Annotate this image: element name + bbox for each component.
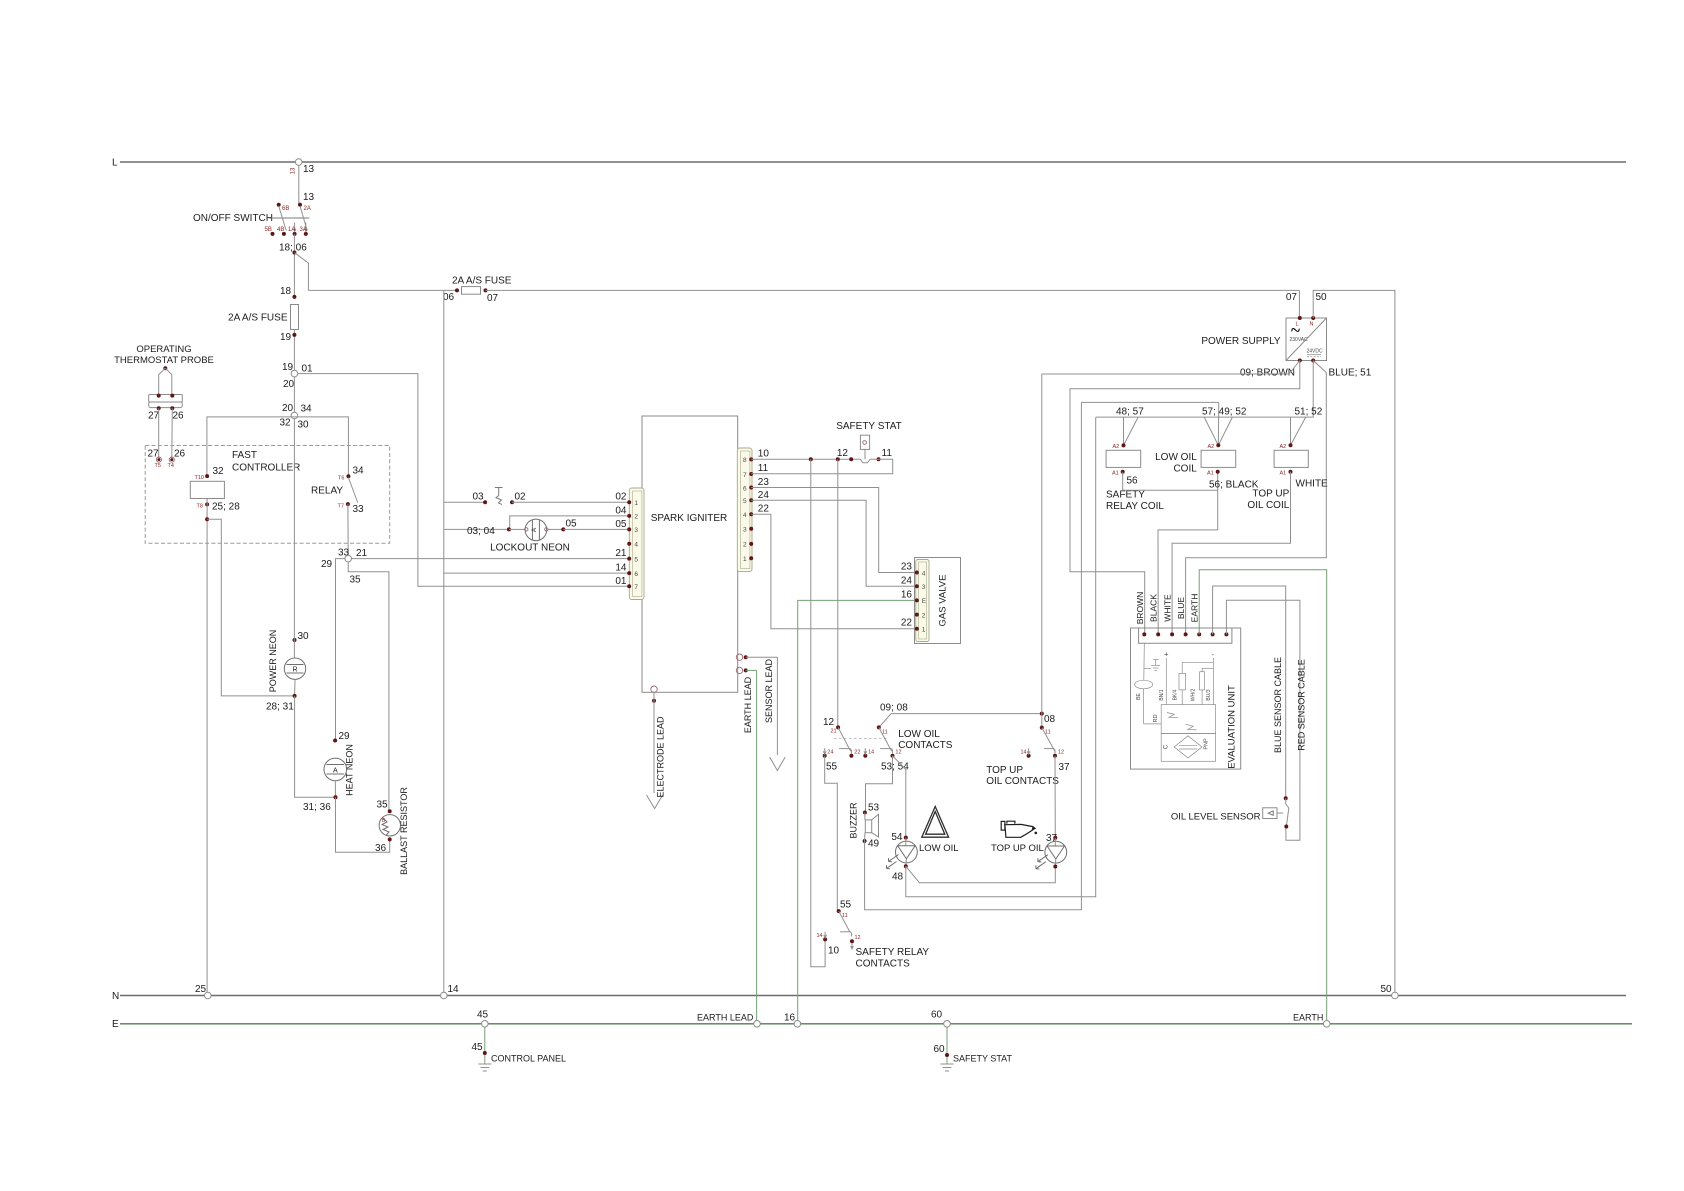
coil safety A2 dot	[1122, 443, 1126, 447]
coupling dashed line	[834, 738, 887, 740]
node 18;06 junction	[292, 251, 296, 255]
svg-text:21: 21	[356, 548, 368, 559]
svg-text:GAS VALVE: GAS VALVE	[938, 575, 949, 627]
electrode lead label	[656, 716, 666, 798]
pin 8 right strip	[743, 457, 753, 464]
svg-text:EARTH: EARTH	[1293, 1013, 1323, 1023]
node earth lead on E	[754, 1021, 761, 1028]
node 12 label stat	[837, 448, 849, 459]
evaluation terminal BROWN	[1142, 632, 1146, 636]
svg-text:09; 08: 09; 08	[880, 703, 908, 714]
wire 57 bus	[1081, 401, 1218, 403]
coil top up A2 dot	[1289, 443, 1293, 447]
contact 12 tiny label src	[855, 935, 861, 941]
coil low oil box	[1201, 450, 1236, 467]
wire 19 segment	[293, 330, 295, 371]
terminal electrode dot	[652, 699, 656, 703]
node 37 label	[1059, 762, 1071, 773]
svg-text:33: 33	[353, 504, 365, 515]
node 55 label src	[840, 900, 852, 911]
box gas valve	[915, 558, 961, 644]
wire 24 route	[751, 500, 917, 586]
svg-text:24: 24	[827, 749, 833, 755]
contact 24 dot	[823, 748, 827, 758]
wire white route	[1172, 472, 1290, 635]
contact 14 dot	[863, 748, 867, 758]
svg-text:11: 11	[882, 448, 893, 459]
svg-text:21: 21	[615, 548, 627, 559]
wire 09 bus	[1042, 373, 1289, 375]
node E label	[112, 1019, 119, 1030]
svg-text:3: 3	[743, 527, 747, 534]
contact 14 dot top up	[1027, 748, 1031, 758]
svg-text:EARTH LEAD: EARTH LEAD	[743, 676, 753, 733]
svg-text:WH/2: WH/2	[1191, 689, 1197, 702]
lamp top up oil arrows	[1036, 855, 1048, 869]
node 12 label contacts	[823, 717, 835, 728]
node 29 dot at heat neon	[333, 739, 337, 743]
node 34 label at T6	[353, 466, 365, 477]
probe head dot 26t	[170, 394, 174, 398]
svg-text:4B: 4B	[277, 227, 284, 233]
wire power neon bottom	[294, 679, 296, 696]
coil safety A1 label	[1112, 471, 1119, 477]
node 53 dot	[863, 811, 867, 815]
low oil contacts label line1	[898, 729, 940, 740]
wire 09 leader	[879, 714, 891, 728]
probe head upper	[149, 395, 183, 403]
wire 12 drop	[837, 459, 839, 727]
earth lead label	[743, 676, 753, 733]
node 28;31 junction dot	[293, 694, 297, 698]
eval ground symbol	[1151, 660, 1160, 671]
svg-text:2A A/S FUSE: 2A A/S FUSE	[452, 276, 512, 287]
eval minus terminal	[1212, 650, 1215, 704]
svg-text:FAST: FAST	[232, 450, 257, 461]
pin 3 left strip	[627, 527, 638, 534]
node 25;28 junction dot	[205, 517, 209, 521]
svg-text:2A A/S FUSE: 2A A/S FUSE	[228, 313, 288, 324]
node 32 label	[280, 418, 292, 429]
svg-text:WHITE: WHITE	[1296, 479, 1329, 490]
svg-text:SAFETY RELAY: SAFETY RELAY	[856, 947, 930, 958]
electrode lead arrowhead	[647, 795, 663, 809]
node 10 junction dot	[809, 457, 813, 461]
terminal earth 2	[736, 667, 742, 673]
svg-text:SENSOR LEAD: SENSOR LEAD	[764, 658, 774, 723]
svg-text:09; BROWN: 09; BROWN	[1240, 368, 1295, 379]
svg-text:SAFETY STAT: SAFETY STAT	[953, 1054, 1013, 1064]
svg-text:RELAY: RELAY	[311, 486, 343, 497]
svg-text:03: 03	[473, 492, 485, 503]
svg-text:3A: 3A	[300, 227, 307, 233]
svg-text:50: 50	[1316, 292, 1328, 303]
wire 29 branch	[336, 559, 345, 741]
node 19 label 2	[282, 362, 294, 373]
svg-text:LOW OIL: LOW OIL	[1155, 452, 1197, 463]
switch S1 1A label	[288, 227, 295, 233]
svg-text:06: 06	[443, 292, 455, 303]
probe label line1	[136, 344, 191, 355]
net 16 label gas valve	[901, 589, 913, 600]
svg-text:23: 23	[758, 477, 770, 488]
svg-text:4: 4	[743, 512, 747, 519]
wire 10 row	[751, 458, 860, 460]
wire 03;04 row	[444, 528, 509, 530]
svg-text:07: 07	[487, 293, 499, 304]
node 08 junction dot	[1040, 712, 1044, 716]
contact 11 dot low oil	[877, 725, 881, 729]
svg-text:21: 21	[831, 729, 837, 735]
safety relay coil label line1	[1106, 490, 1145, 501]
contact 22 dot	[849, 754, 853, 758]
contact 14 tiny label	[868, 749, 874, 755]
switch S1 blade 2	[300, 206, 307, 231]
terminal T6 dot	[346, 474, 350, 478]
wire 07 drop to PSU	[1298, 290, 1300, 318]
wire 48 route	[906, 417, 1096, 896]
pin 1 right strip	[743, 556, 753, 563]
wire blue route	[1186, 361, 1327, 635]
svg-text:56: 56	[1127, 476, 1139, 487]
node 51;52 label	[1295, 407, 1323, 418]
evaluation terminal 6	[1211, 632, 1215, 636]
top up contacts label line1	[986, 765, 1023, 776]
svg-text:E: E	[112, 1019, 119, 1030]
node 50 label at N	[1381, 984, 1393, 995]
node 33 label at T7	[353, 504, 365, 515]
net 02 label	[615, 492, 627, 503]
lamp power neon	[284, 658, 305, 679]
wire heat neon bottom	[334, 781, 336, 798]
eval wire labels	[1159, 689, 1212, 702]
probe head dot 27b	[157, 406, 161, 410]
box spark igniter	[642, 416, 738, 692]
svg-text:29: 29	[339, 731, 351, 742]
svg-text:45: 45	[472, 1042, 484, 1053]
svg-text:BUZZER: BUZZER	[849, 802, 859, 839]
svg-text:EARTH: EARTH	[1190, 594, 1200, 623]
contact 14 tiny label src	[817, 933, 823, 939]
svg-text:A2: A2	[1208, 444, 1215, 450]
wire 35 branch	[348, 562, 389, 811]
switch S1 ON/OFF label	[193, 213, 273, 224]
wire 52 leader	[1218, 417, 1232, 445]
ground control panel	[478, 1061, 491, 1071]
svg-text:SAFETY STAT: SAFETY STAT	[836, 421, 902, 432]
svg-text:14: 14	[448, 984, 460, 995]
terminal electrode	[651, 686, 657, 692]
contact blade right	[879, 727, 892, 751]
svg-text:56; BLACK: 56; BLACK	[1209, 480, 1259, 491]
node 18 label	[280, 286, 292, 297]
wire red sensor cable	[1226, 600, 1300, 840]
node 16 label at E	[784, 1013, 796, 1024]
contact 22 tiny label	[854, 749, 860, 755]
wire 09 vertical	[1041, 374, 1043, 714]
svg-text:1: 1	[634, 500, 638, 507]
wire 48 leader	[1124, 417, 1139, 445]
eval resistor 2	[1200, 672, 1205, 705]
coil safety A1 dot	[1121, 470, 1125, 474]
svg-text:CONTACTS: CONTACTS	[898, 740, 953, 751]
node 20 label 2	[282, 403, 294, 414]
node 03;04 label	[467, 526, 495, 537]
pin 7 right strip	[743, 472, 753, 479]
lamp top up oil	[1045, 838, 1067, 867]
switch S1 terminal 6B	[277, 203, 281, 207]
contact seat right step	[892, 749, 893, 754]
resistor ballast	[379, 815, 400, 836]
node 55 label	[826, 762, 838, 773]
node 06 dot	[455, 288, 459, 292]
svg-text:53; 54: 53; 54	[881, 762, 909, 773]
terminal earth 1	[736, 654, 742, 660]
node 54 dot	[904, 836, 908, 840]
pin 1 left strip	[627, 500, 638, 507]
wire 11 route	[751, 459, 893, 474]
node 34 label	[301, 404, 313, 415]
warning triangle inner	[926, 812, 945, 835]
wire 28 branch	[207, 519, 295, 696]
probe head dot 27t	[157, 394, 161, 398]
svg-text:LOW OIL: LOW OIL	[919, 843, 959, 854]
svg-text:51; 52: 51; 52	[1295, 407, 1323, 418]
svg-text:49: 49	[868, 839, 880, 850]
svg-text:01: 01	[302, 364, 314, 375]
coil top up A1 label	[1280, 471, 1287, 477]
svg-text:12: 12	[855, 935, 861, 941]
node 48;57 label	[1116, 407, 1144, 418]
contact 14 dot src	[823, 932, 827, 942]
net 22 label gas valve	[901, 618, 913, 629]
evaluation terminal 7	[1224, 632, 1228, 636]
switch S1 blade 1	[279, 206, 287, 231]
safety relay coil label line2	[1106, 501, 1164, 512]
svg-text:RELAY COIL: RELAY COIL	[1106, 501, 1164, 512]
earth lead bus label	[697, 1013, 754, 1023]
ground safety stat	[941, 1061, 954, 1071]
top up seat	[1044, 749, 1055, 754]
node 27 label	[148, 411, 160, 422]
svg-text:ELECTRODE LEAD: ELECTRODE LEAD	[656, 716, 666, 798]
low oil contacts label line2	[898, 740, 953, 751]
svg-text:26: 26	[174, 449, 186, 460]
node 35 dot at ballast	[388, 809, 392, 813]
svg-text:5: 5	[634, 556, 638, 563]
wire 25 drop to N	[206, 499, 208, 996]
node 37 label at lamp	[1046, 833, 1058, 844]
svg-text:29: 29	[321, 559, 333, 570]
evaluation terminal EARTH	[1197, 632, 1201, 636]
wire earth route	[1199, 570, 1327, 1024]
svg-text:OIL CONTACTS: OIL CONTACTS	[986, 776, 1059, 787]
sensor lead wire	[746, 656, 778, 658]
node 03;04 junction dot	[507, 527, 511, 531]
node 27 label inside	[148, 449, 160, 460]
node 49 label	[868, 839, 880, 850]
wire 01 route	[298, 374, 630, 587]
net 01 label	[615, 576, 627, 587]
svg-text:OIL COIL: OIL COIL	[1247, 500, 1289, 511]
top up oil lamp label	[991, 843, 1044, 854]
node 10 label src	[828, 946, 840, 957]
svg-text:20: 20	[283, 379, 295, 390]
eval trigger symbol	[1167, 713, 1197, 730]
node 26 label	[173, 411, 185, 422]
terminal T10 label	[195, 475, 204, 481]
svg-text:T8: T8	[197, 504, 203, 510]
pin 6 right strip	[743, 485, 753, 492]
svg-text:01: 01	[615, 576, 627, 587]
svg-text:L: L	[112, 158, 118, 169]
svg-text:32: 32	[213, 466, 225, 477]
svg-text:PNP: PNP	[1204, 738, 1210, 750]
svg-text:25: 25	[195, 984, 207, 995]
switch S1 6B label	[282, 206, 289, 212]
net 05 label	[615, 519, 627, 530]
node 31;36 label	[303, 802, 331, 813]
wire 07 to power supply	[486, 289, 1300, 291]
svg-text:OPERATING: OPERATING	[136, 344, 191, 355]
red sensor cable label	[1297, 659, 1307, 751]
node 13 junction on L	[295, 159, 302, 166]
wire neon to 05	[548, 528, 563, 530]
power supply AC squiggle	[1291, 327, 1300, 334]
svg-text:35: 35	[350, 575, 362, 586]
svg-text:N: N	[1310, 322, 1314, 328]
net 22 label	[758, 504, 770, 515]
terminal T10 dot	[205, 474, 209, 478]
terminal earth 1 dot	[744, 655, 748, 659]
contact 12 dot top up	[1053, 754, 1057, 758]
wire N bus	[120, 995, 1626, 997]
svg-text:6: 6	[743, 485, 747, 492]
node 25;28 label	[212, 502, 240, 513]
svg-text:SAFETY: SAFETY	[1106, 490, 1145, 501]
node 28;31 label	[266, 702, 294, 713]
node 08 label	[1044, 714, 1056, 725]
coil top up A1 dot	[1289, 470, 1293, 474]
wire 33 drop	[347, 504, 349, 555]
switch S1 terminal 4B	[282, 232, 286, 236]
svg-text:BN/1: BN/1	[1159, 689, 1165, 700]
svg-text:CONTROLLER: CONTROLLER	[232, 463, 300, 474]
coil top up box	[1274, 450, 1308, 467]
wire 55 route	[825, 756, 838, 911]
contact 11 dot src	[837, 909, 841, 913]
svg-text:A2: A2	[1280, 444, 1287, 450]
node 05 dot	[561, 527, 565, 531]
wire 22 route	[751, 514, 917, 628]
lockout neon label	[490, 543, 570, 554]
wire 05 row	[563, 528, 629, 530]
node 13 tiny label	[291, 167, 297, 174]
contact 12 dot low oil	[891, 754, 895, 758]
wire 37 drop	[1054, 756, 1056, 838]
svg-text:BLACK: BLACK	[1149, 594, 1159, 622]
svg-text:35: 35	[377, 800, 389, 811]
power supply 230VAC	[1290, 337, 1309, 343]
node 11 dot stat	[877, 457, 881, 461]
power supply 24VDC	[1307, 349, 1324, 357]
coil safety A2 label	[1113, 444, 1120, 450]
wire 20 segment	[293, 377, 295, 412]
svg-text:14: 14	[615, 563, 627, 574]
node 19 dot	[292, 333, 296, 337]
svg-text:24: 24	[758, 490, 770, 501]
svg-text:37: 37	[1059, 762, 1071, 773]
wire 32 route	[207, 417, 295, 476]
box power supply	[1286, 318, 1327, 361]
net 23 label gas valve	[901, 562, 913, 573]
contact 11 tiny label top up	[1045, 730, 1051, 736]
svg-text:E: E	[922, 598, 927, 605]
node 30 label	[298, 420, 310, 431]
wire 13 drop	[298, 165, 300, 204]
eval BE wire	[1144, 689, 1162, 724]
svg-text:T5: T5	[155, 463, 161, 469]
svg-text:27: 27	[148, 411, 160, 422]
wire 30 drop	[293, 419, 295, 658]
node 02 dot	[510, 500, 514, 504]
wire 54 route	[893, 756, 906, 838]
sensor lead line	[776, 657, 778, 755]
gas valve pin 2	[915, 612, 926, 619]
eval plus terminal	[1164, 650, 1169, 705]
psu terminal N label	[1310, 322, 1314, 328]
terminal T8 label	[197, 504, 203, 510]
svg-text:55: 55	[826, 762, 838, 773]
oil level sensor blade	[1286, 798, 1289, 826]
svg-text:34: 34	[301, 404, 313, 415]
wire 31 route	[295, 696, 336, 797]
wire 57 drop to low oil coil	[1217, 402, 1220, 445]
svg-text:T6: T6	[338, 476, 344, 482]
contact 12 tiny label top up	[1058, 749, 1064, 755]
svg-text:19: 19	[280, 332, 292, 343]
svg-text:48: 48	[892, 872, 904, 883]
node WHITE label	[1296, 479, 1329, 490]
node 25 label	[195, 984, 207, 995]
svg-text:HEAT NEON: HEAT NEON	[345, 744, 355, 796]
svg-text:N: N	[112, 991, 119, 1002]
power neon label	[268, 630, 278, 693]
contact 11 dot top up	[1040, 726, 1044, 730]
switch thermal cutout	[495, 488, 503, 505]
lamp heat neon	[324, 758, 347, 781]
svg-text:T10: T10	[195, 475, 204, 481]
svg-text:RD: RD	[1153, 715, 1159, 723]
node N label	[112, 991, 119, 1002]
top up blade	[1042, 728, 1055, 752]
power supply diagonal	[1286, 318, 1327, 361]
blue sensor cable label	[1273, 657, 1283, 753]
terminal T7 dot	[346, 502, 350, 506]
node 56 label	[1127, 476, 1139, 487]
svg-text:50: 50	[1381, 984, 1393, 995]
node 09;BROWN label	[1240, 368, 1295, 379]
node 30 label at power neon	[298, 631, 310, 642]
safety relay contacts label line1	[856, 947, 930, 958]
net 24 label gas valve	[901, 575, 913, 586]
psu terminal 07	[1298, 316, 1302, 320]
node 11 label stat	[882, 448, 893, 459]
svg-text:45: 45	[477, 1010, 489, 1021]
svg-text:BROWN: BROWN	[1135, 592, 1145, 625]
svg-text:10: 10	[758, 449, 770, 460]
top up oil coil label line2	[1247, 500, 1289, 511]
